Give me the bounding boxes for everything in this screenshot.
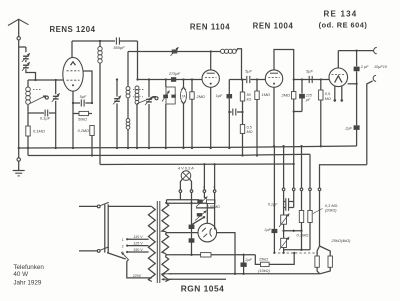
capacitor 2uF psu mid	[263, 146, 277, 254]
wire REN1004 anode loop	[274, 50, 295, 92]
wire drop 1	[282, 145, 285, 215]
capacitor 0,1uF b	[284, 202, 294, 211]
resistor 0,05MOhm	[207, 200, 221, 209]
wire RGN output	[217, 233, 237, 275]
wire anode rail corner	[127, 52, 129, 86]
wire contact a2 up	[213, 163, 215, 190]
antenna coupling connector	[17, 37, 20, 40]
svg-text:2MΩ: 2MΩ	[196, 94, 206, 99]
wire RENS1204 anode	[71, 41, 73, 58]
capacitor 275pF	[168, 71, 181, 82]
svg-text:110 V: 110 V	[133, 235, 143, 239]
svg-text:10µF10: 10µF10	[374, 65, 388, 69]
caption 40 W	[13, 271, 28, 278]
svg-text:0,5: 0,5	[247, 126, 253, 130]
resistor 2MOhm grid leak	[190, 78, 205, 149]
capacitor 5uF RE134 coupling	[306, 69, 313, 84]
svg-text:REN 1004: REN 1004	[253, 22, 294, 31]
wire RENS1204 cathode	[72, 91, 74, 104]
wire wiper line	[284, 230, 302, 232]
svg-text:25kΩ(4kΩ): 25kΩ(4kΩ)	[331, 238, 352, 243]
capacitor smoothing 1	[189, 203, 195, 255]
transformer secondary winding c	[162, 257, 169, 282]
svg-text:Telefunken: Telefunken	[13, 264, 44, 271]
wire selector feed	[107, 253, 126, 259]
input tuning coil L1	[26, 80, 49, 111]
svg-text:(10kΩ): (10kΩ)	[258, 269, 270, 273]
svg-text:kΩ: kΩ	[247, 98, 252, 102]
svg-text:220V: 220V	[132, 274, 142, 278]
wire drop 4 from bus2	[309, 154, 312, 210]
wire cathode to ground bus	[72, 103, 74, 149]
transformer secondary winding a	[162, 203, 169, 232]
wire contact a1 up	[203, 163, 205, 190]
tube RGN1054 envelope	[198, 223, 217, 242]
output jack 2	[373, 75, 376, 81]
trimmer capacitor grid block	[113, 78, 121, 149]
svg-text:0,05MΩ: 0,05MΩ	[207, 205, 220, 209]
switch bar	[105, 204, 108, 252]
trimmer capacitor RF rail	[171, 47, 179, 56]
svg-text:(20kΩ): (20kΩ)	[325, 209, 337, 213]
wire lamp lead right	[189, 179, 191, 190]
pilot lamp 4V 0,3A	[178, 165, 194, 180]
heater bus	[100, 163, 295, 165]
tube REN1104 envelope	[202, 70, 219, 87]
voltage selector arm	[121, 252, 129, 260]
tap 150V	[127, 248, 148, 252]
ground symbol	[13, 171, 25, 176]
mains switch arm 1	[100, 202, 109, 205]
IF transformer primary coil	[126, 87, 130, 119]
node screen-cathode	[91, 102, 93, 104]
wire anode top rail	[72, 40, 115, 42]
svg-text:3: 3	[122, 251, 124, 255]
svg-text:150 V: 150 V	[133, 248, 143, 252]
svg-text:0,3 MΩ: 0,3 MΩ	[325, 204, 337, 208]
tube REN1104 internals	[205, 73, 216, 84]
node oscillator coil top	[99, 40, 101, 42]
svg-text:RENS 1204: RENS 1204	[49, 25, 95, 34]
wire drop 5 jack return	[318, 165, 367, 246]
resistor smoothing	[167, 253, 256, 257]
tube label REN 1104	[190, 23, 230, 32]
capacitor interstage	[228, 109, 244, 116]
lamp contact left	[179, 190, 182, 193]
tube label RENS 1204	[49, 25, 95, 34]
svg-text:RE 134: RE 134	[324, 9, 358, 18]
wire REN1104 cathode	[210, 87, 212, 149]
capacitor 550pF	[113, 37, 137, 49]
svg-text:0,1MΩ: 0,1MΩ	[78, 129, 89, 133]
potentiometer 2 0,3MOhm	[279, 233, 308, 254]
tube REN1004 internals	[268, 73, 279, 84]
svg-text:25kΩ: 25kΩ	[258, 258, 268, 262]
svg-text:Jahr 1929: Jahr 1929	[13, 279, 42, 286]
transformer primary winding	[148, 207, 155, 282]
heater rail bottom 1	[162, 272, 320, 275]
mains switch arm 2	[100, 247, 109, 250]
caption Jahr 1929	[13, 279, 42, 286]
wire 550pF junction down	[136, 41, 138, 81]
selector contact 2	[122, 245, 129, 249]
tube RGN1054 internals	[202, 228, 212, 237]
wire REN1004 cathode	[273, 87, 275, 147]
svg-text:275pF: 275pF	[168, 71, 181, 76]
wire antenna down-lead	[19, 40, 26, 148]
mains lead 2	[79, 250, 100, 253]
svg-text:2µF: 2µF	[263, 228, 271, 232]
tap 220V	[127, 260, 152, 278]
wire jack2 return	[367, 81, 373, 165]
capacitor 0,1uF a	[268, 198, 294, 206]
ground bus	[19, 146, 357, 148]
wire RGN anode top	[206, 203, 208, 223]
IF transformer secondary coil	[135, 86, 139, 149]
capacitor 2uF output top	[354, 51, 388, 126]
lamp contact right	[190, 190, 193, 193]
resistor pair 25kOhm 4kOhm	[315, 238, 351, 274]
wire secondary taps	[165, 200, 166, 257]
wire RE134 filament pin 2	[341, 86, 344, 102]
svg-text:(od. RE 604): (od. RE 604)	[319, 21, 368, 30]
wire RE134 cathode lead	[348, 83, 358, 85]
tube RE134 envelope	[329, 68, 348, 87]
capacitor 225uF	[299, 78, 312, 111]
wire contact a2 down	[214, 192, 216, 229]
resistor 0,1MOhm	[26, 113, 45, 156]
svg-text:RGN 1054: RGN 1054	[181, 284, 225, 294]
svg-text:2µF: 2µF	[344, 126, 352, 130]
svg-text:50kΩ: 50kΩ	[78, 117, 87, 121]
selector contact 3	[122, 251, 129, 255]
wire cluster rail a	[167, 192, 200, 199]
oscillator coil L2	[98, 47, 102, 64]
resistor 0,3MOhm 20kOhm a	[299, 211, 303, 232]
wire cluster rail b	[167, 192, 208, 204]
svg-text:0,3MΩ: 0,3MΩ	[297, 233, 309, 238]
output jack 1	[374, 47, 377, 53]
wire anode to output jack	[338, 49, 373, 51]
caption Telefunken	[13, 264, 44, 271]
wire psu rail 249	[284, 231, 310, 251]
tube REN1004 envelope	[265, 70, 282, 87]
wire wiper2 to cap	[192, 216, 206, 225]
capacitor 5uF cathode	[73, 94, 92, 107]
resistor 2MOhm anode load	[280, 92, 296, 113]
svg-text:0,1µF: 0,1µF	[268, 202, 278, 206]
tube label RGN 1054	[181, 284, 225, 294]
switch contact a2	[213, 185, 216, 192]
wire coil L2 down to heater rail	[99, 41, 101, 165]
svg-text:40 W: 40 W	[13, 271, 28, 278]
svg-text:2: 2	[122, 245, 124, 249]
tube RENS1204 envelope	[63, 57, 83, 91]
wire contact a1 down	[203, 192, 205, 198]
wire RE134 anode	[337, 51, 339, 68]
wire trimmer to grid node	[26, 69, 36, 80]
trimmer capacitor tuning C2	[52, 80, 60, 149]
wire mains to primary	[108, 205, 152, 207]
resistor 0,2MOhm screen	[78, 126, 95, 157]
antenna	[8, 19, 29, 36]
resistor 0,3MOhm 20kOhm b	[308, 204, 338, 250]
wire anode rail RF	[128, 51, 221, 53]
ground connector	[17, 147, 20, 171]
wire grid line REN1104	[138, 79, 203, 81]
trimmer capacitor antenna series	[22, 53, 30, 62]
svg-text:5µF: 5µF	[80, 94, 87, 99]
resistor 1MOhm grid	[255, 78, 270, 156]
heater rail bottom 2	[162, 278, 227, 281]
wire wiper rail	[196, 207, 215, 209]
resistor 0,5MOhm RE134 grid	[319, 78, 331, 147]
wire RE134 filament pin 1	[334, 86, 337, 102]
wire REN1104 anode	[210, 52, 212, 70]
resistor 50kOhm anode	[240, 80, 251, 113]
svg-text:1MΩ: 1MΩ	[262, 92, 271, 97]
capacitor 1uF	[216, 78, 244, 149]
tap 125V	[127, 241, 148, 245]
dashed coupling line	[278, 252, 318, 254]
HF choke 7A	[181, 78, 187, 149]
node REN1104 anode	[210, 50, 212, 52]
wire grid line RE134	[294, 79, 330, 81]
tube label REN 1004	[253, 22, 294, 31]
tube label RE 134	[324, 9, 358, 18]
tube RE134 internals	[332, 75, 346, 83]
potentiometer 1	[279, 214, 289, 253]
svg-text:0,5: 0,5	[325, 92, 331, 96]
tube label od RE 604	[319, 21, 368, 30]
bus 2	[28, 154, 310, 155]
svg-text:0,1MΩ: 0,1MΩ	[33, 129, 45, 134]
node grid RENS1204	[34, 79, 57, 81]
svg-text:0,1µF: 0,1µF	[40, 115, 51, 120]
wire lamp lead left	[180, 179, 182, 190]
tube RENS1204 internals	[67, 62, 80, 86]
trimmer capacitor padder	[145, 78, 153, 149]
svg-text:5µF: 5µF	[245, 69, 252, 74]
svg-text:1µF: 1µF	[216, 93, 223, 98]
IF coupling arrows	[133, 90, 158, 104]
svg-text:2 µF: 2 µF	[360, 65, 369, 69]
wire grid RENS1204	[28, 79, 63, 81]
capacitor smoothing 2	[189, 238, 195, 256]
svg-text:MΩ: MΩ	[325, 97, 331, 101]
RF choke coil on rail	[221, 49, 242, 80]
capacitor 0,1uF	[28, 110, 56, 121]
svg-text:4 V 0,3 A: 4 V 0,3 A	[178, 165, 194, 170]
wire drop 3	[300, 145, 303, 211]
transformer core	[157, 201, 160, 283]
resistor 50kOhm bias horizontal	[73, 111, 92, 121]
svg-text:MΩ: MΩ	[247, 130, 253, 134]
mains lead 1	[79, 205, 100, 208]
svg-text:2µF: 2µF	[244, 258, 252, 262]
svg-text:550pF: 550pF	[113, 45, 125, 50]
wire RENS1204 screen lead	[83, 71, 92, 103]
selector contact 1	[122, 238, 129, 242]
wire RGN left lead	[167, 232, 199, 234]
switch wiper 2	[195, 211, 207, 221]
svg-text:125 V: 125 V	[133, 241, 143, 245]
capacitor 5uF coupling	[242, 69, 266, 84]
switch contact a1	[203, 185, 206, 192]
wire drop 2	[292, 164, 295, 202]
oscillator box	[162, 78, 176, 149]
svg-text:REN 1104: REN 1104	[190, 23, 230, 32]
resistor 0,5MOhm	[240, 112, 252, 157]
transformer secondary winding b	[162, 234, 169, 254]
IF coil second winding	[126, 119, 130, 150]
resistor 25kOhm 10kOhm	[255, 252, 295, 273]
capacitor 2uF output bottom	[344, 125, 359, 146]
svg-text:2MΩ: 2MΩ	[280, 93, 290, 98]
capacitor 2uF psu bottom	[241, 255, 253, 275]
wire decoupling node	[294, 112, 302, 165]
svg-text:5µF: 5µF	[306, 69, 313, 74]
switch wiper 1	[196, 197, 208, 207]
tap 110V	[127, 235, 148, 239]
svg-text:1: 1	[122, 238, 124, 242]
trimmer capacitor antenna 2	[22, 62, 30, 71]
